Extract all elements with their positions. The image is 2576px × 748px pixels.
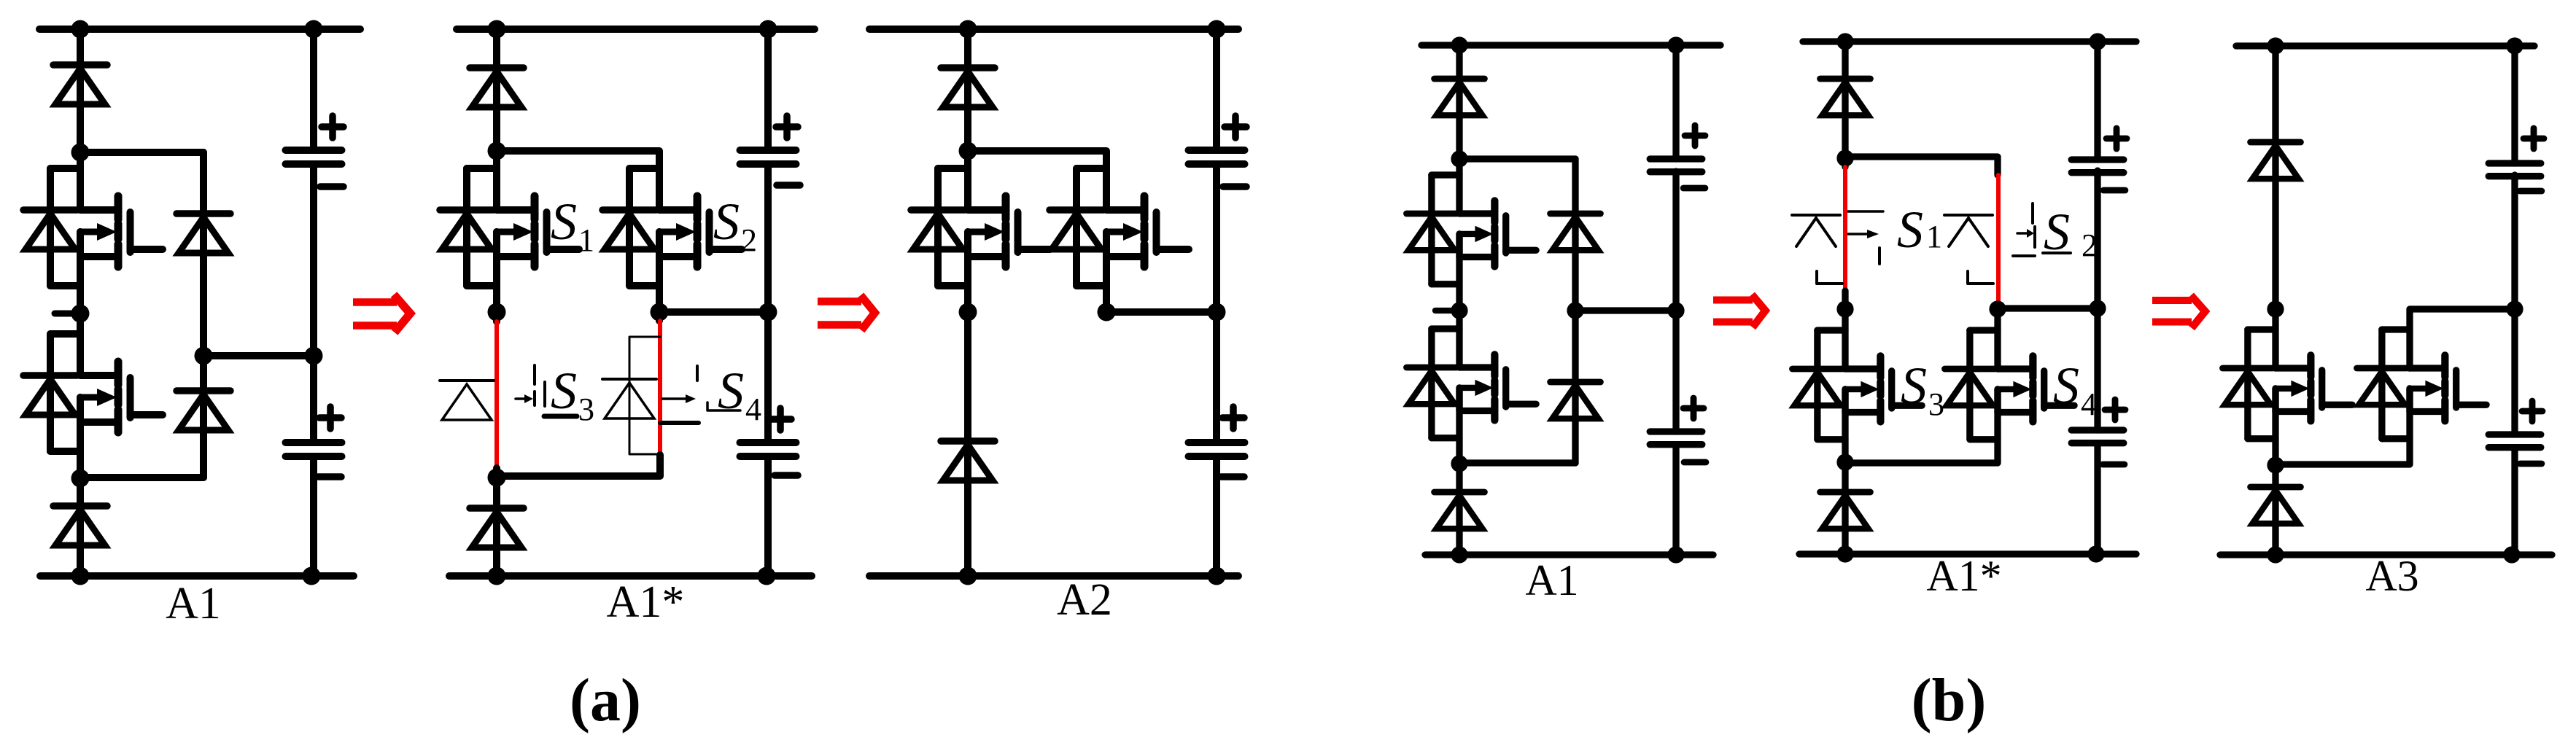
middle branch wire	[1572, 159, 1578, 463]
antiparallel diode of S2	[23, 372, 77, 379]
antiparallel diode of S3	[1793, 366, 1843, 373]
node N-right junction	[758, 567, 776, 585]
switch S2 body-diode loop	[1076, 165, 1106, 172]
diode D5 middle upper	[1551, 211, 1601, 217]
ghost mosfet S4 arrow	[662, 397, 686, 400]
capacitor C2	[740, 439, 796, 446]
capacitor branch lower wire	[1213, 456, 1220, 576]
node M1 below S1	[488, 303, 506, 322]
wire M2 to S4	[1994, 309, 2001, 369]
red replacement wire for S2	[1996, 175, 2001, 300]
wire between capacitors	[1213, 164, 1220, 443]
antiparallel diode of S1	[911, 206, 965, 214]
node P-left junction	[1836, 33, 1853, 50]
ghost mosfet S2 channel mid	[2033, 227, 2036, 247]
wire left branch upper	[1842, 42, 1848, 167]
mosfet S2	[80, 372, 118, 379]
svg-text:S: S	[1901, 357, 1927, 415]
mosfet S2	[1106, 206, 1144, 214]
red replacement wire for S3	[494, 322, 499, 468]
node N-right junction	[303, 567, 321, 585]
ghost mosfet S2 source tick	[2013, 254, 2035, 257]
red replacement wire for S4	[658, 321, 662, 455]
ghost mosfet S3 gate bar	[543, 382, 546, 406]
circuit A1* (b) top rail P	[1803, 38, 2136, 44]
node B (below S3)	[1836, 453, 1853, 470]
node A (below D1)	[1451, 150, 1467, 167]
wire between capacitors	[310, 164, 317, 443]
diode D2 bottom clamp	[1820, 489, 1871, 496]
minus of C2	[2103, 461, 2125, 468]
node P-right junction	[305, 20, 323, 39]
circuit A2 top rail P	[869, 26, 1238, 33]
ghost mosfet S1 gate	[1817, 271, 1842, 284]
mosfet S3	[2276, 365, 2311, 371]
capacitor C1	[1650, 155, 1702, 162]
diode D2 bottom clamp	[470, 504, 524, 512]
node M1 (between switches)	[1451, 302, 1467, 319]
circuit A1* (a) top rail P	[457, 26, 815, 33]
node capacitor midpoint	[1667, 302, 1684, 319]
wire bottom left	[493, 478, 500, 576]
wire below S2	[656, 232, 663, 321]
node M1 (S3 drain)	[2267, 300, 2284, 317]
wire left branch lower	[77, 397, 84, 576]
svg-text:A1: A1	[166, 579, 221, 628]
middle branch wire	[200, 152, 207, 478]
capacitor branch lower wire	[310, 456, 317, 576]
mosfet S4	[2410, 365, 2445, 371]
wire node A to middle branch	[80, 149, 203, 156]
red transformation arrow 3	[1713, 297, 1753, 304]
svg-text:A2: A2	[1057, 575, 1112, 625]
node N-right junction	[2503, 546, 2520, 563]
capacitor branch upper wire	[764, 29, 772, 150]
wire left branch upper	[964, 29, 971, 210]
switch S2 body-diode loop	[50, 330, 80, 338]
minus of C2	[318, 473, 341, 480]
diode D2 bottom clamp	[2251, 484, 2301, 491]
wire S4 to bottom link	[1845, 389, 1998, 463]
antiparallel diode of S1	[1407, 211, 1457, 217]
ghost loop of removed S4	[629, 337, 660, 454]
capacitor C2	[1189, 439, 1245, 446]
switch S2 body-diode loop	[1432, 325, 1459, 332]
ghost diode of removed S1	[1792, 214, 1840, 217]
node P-right junction	[1667, 36, 1684, 53]
diode D2 bottom clamp	[1435, 489, 1485, 496]
minus of C2	[1684, 459, 1706, 466]
ghost mosfet S3 channel top	[533, 365, 536, 384]
wire above node B	[493, 468, 500, 478]
capacitor C1	[2488, 160, 2541, 166]
node capacitor midpoint	[305, 347, 323, 365]
capacitor branch lower wire	[1672, 445, 1679, 555]
mosfet S1	[80, 206, 118, 214]
mosfet S1	[497, 206, 535, 214]
svg-text:A1*: A1*	[607, 577, 685, 627]
circuit A1* (a) bottom rail N	[449, 572, 812, 580]
diode D1 top clamp	[1435, 76, 1485, 82]
diode D6 middle lower	[176, 387, 230, 394]
minus of C1	[1683, 185, 1705, 192]
capacitor C1	[740, 147, 796, 154]
wire node A to middle branch	[1459, 155, 1575, 162]
antiparallel diode of S2	[1050, 206, 1103, 214]
node capacitor midpoint	[1208, 303, 1226, 322]
wire below S3	[1842, 389, 1848, 554]
capacitor branch upper wire	[1672, 45, 1679, 159]
mosfet S4	[1998, 365, 2033, 372]
node P-left junction	[959, 20, 977, 39]
mosfet S2	[659, 206, 697, 214]
svg-text:S: S	[551, 192, 577, 251]
wire left branch upper	[77, 29, 84, 210]
wire node A to S2 branch	[1845, 157, 1998, 175]
capacitor C2	[286, 439, 342, 446]
node P-right junction	[1208, 20, 1226, 39]
mosfet S1	[1459, 210, 1494, 217]
wire mid-branch to capacitor midpoint	[203, 352, 314, 359]
node A (below D1)	[959, 142, 977, 160]
circuit A1* (b) bottom rail N	[1799, 550, 2136, 557]
node P-right junction	[759, 20, 777, 39]
node M2 below S2	[651, 303, 669, 322]
switch S2 body-diode loop	[629, 165, 659, 172]
node mid-branch center	[1567, 302, 1583, 319]
svg-text:A1: A1	[1525, 556, 1578, 604]
ghost mosfet S4 gate	[707, 402, 740, 410]
svg-text:S: S	[713, 192, 740, 251]
capacitor branch upper wire	[2511, 46, 2518, 163]
ghost mosfet S1 arrow	[1848, 233, 1867, 235]
plus of C1	[1685, 133, 1705, 139]
node M2 (S4 drain)	[1989, 300, 2006, 317]
red replacement wire for S1	[1843, 167, 1847, 291]
wire node M2 to capacitor midpoint	[1106, 308, 1217, 316]
switch S1 body-diode loop	[50, 165, 80, 172]
minus of C1	[777, 182, 800, 189]
ghost mosfet S3 arrow	[516, 397, 524, 400]
minus of C1	[1223, 183, 1246, 190]
node N-left junction	[959, 567, 977, 585]
switch S1 body-diode loop	[1432, 171, 1459, 178]
switch S1 body-diode loop	[938, 165, 968, 172]
plus of C2	[2522, 408, 2542, 415]
output stub at node M1	[55, 311, 76, 317]
node capacitor midpoint	[759, 303, 777, 322]
node P-left junction	[71, 20, 90, 39]
svg-text:(a): (a)	[570, 666, 641, 734]
ghost mosfet S4 source lead	[660, 421, 699, 425]
ghost mosfet S2 gate	[1968, 271, 1993, 284]
node A (below D1)	[488, 142, 506, 160]
wire between capacitors	[764, 164, 772, 443]
wire capacitor midpoint to S4 drain	[2410, 309, 2515, 368]
plus of C1	[322, 123, 344, 130]
node N-right junction	[2087, 545, 2104, 562]
node B (below S2)	[71, 470, 90, 488]
capacitor branch lower wire	[764, 456, 772, 576]
capacitor branch lower wire	[2094, 443, 2100, 554]
circuit A1 (b) bottom rail N	[1425, 551, 1713, 558]
diode D2 bottom clamp	[941, 437, 995, 445]
svg-text:S: S	[1897, 200, 1923, 259]
diode D1 top clamp	[1820, 76, 1871, 82]
node N-left junction	[1836, 545, 1853, 562]
node N-left junction	[1451, 546, 1467, 563]
diode D1 top clamp	[941, 64, 995, 71]
diode D2 bottom clamp	[53, 502, 107, 510]
minus of C2	[1221, 473, 1244, 480]
switch S3 body-diode loop	[2248, 326, 2276, 332]
node B (below S3)	[2267, 456, 2284, 473]
wire left branch upper	[2272, 46, 2278, 368]
ghost mosfet S2 channel top	[2031, 203, 2034, 223]
diode D6 middle lower	[1551, 379, 1601, 386]
output stub at node M1	[1435, 308, 1456, 313]
wire above node M1	[1842, 291, 1848, 309]
node P-left junction	[2267, 37, 2284, 54]
svg-text:2: 2	[741, 222, 757, 258]
capacitor C2	[1650, 428, 1702, 435]
wire below S3	[2272, 389, 2278, 555]
wire left branch upper	[1456, 45, 1462, 214]
node P-left junction	[1451, 36, 1467, 53]
svg-text:(b): (b)	[1912, 666, 1987, 734]
plus of C2	[1222, 414, 1244, 421]
capacitor branch upper wire	[310, 29, 317, 150]
capacitor C1	[1189, 147, 1245, 154]
ghost diode of removed S2	[1944, 214, 1993, 217]
plus of C1	[2106, 136, 2127, 142]
node N-right junction	[1208, 567, 1226, 585]
plus of C1	[2523, 136, 2544, 142]
red transformation arrow 2	[818, 297, 861, 305]
ghost mosfet S2 arrow	[2017, 232, 2027, 235]
node N-right junction	[1667, 546, 1684, 563]
wire node A to S2 drain	[497, 151, 659, 210]
node M1 below S1	[959, 303, 977, 322]
antiparallel diode of S3	[2223, 365, 2273, 372]
capacitor branch upper wire	[2094, 42, 2100, 160]
wire between capacitors	[2094, 171, 2100, 430]
ghost mosfet S4 channel top	[696, 366, 699, 381]
antiparallel diode of S1	[23, 206, 77, 214]
ghost diode of removed S4	[602, 378, 656, 381]
ghost mosfet S3 channel mid	[533, 391, 536, 405]
wire left branch mid	[1456, 234, 1462, 367]
svg-text:S: S	[2053, 357, 2079, 415]
svg-text:A3: A3	[2365, 552, 2418, 600]
node capacitor midpoint	[2506, 300, 2523, 317]
node A (below D1)	[1836, 149, 1853, 166]
plus of C1	[1225, 123, 1246, 130]
wire left branch lower	[1456, 388, 1462, 556]
switch S1 body-diode loop	[467, 165, 497, 172]
minus of C1	[320, 183, 344, 190]
minus of C2	[2520, 461, 2542, 467]
node B (bottom junction)	[488, 469, 506, 487]
wire left branch upper	[493, 29, 500, 210]
node N-left junction	[2267, 546, 2284, 563]
capacitor C2	[2071, 426, 2124, 433]
node N-left junction	[488, 567, 506, 585]
node M2 below S2	[1098, 303, 1116, 322]
diode D1 top clamp	[53, 61, 107, 69]
circuit A2 bottom rail N	[869, 572, 1238, 580]
capacitor C1	[286, 147, 342, 154]
mosfet S1	[968, 206, 1006, 214]
mosfet S2	[1459, 364, 1494, 370]
red transformation arrow 4	[2152, 297, 2192, 304]
antiparallel diode of S2	[1407, 365, 1457, 371]
capacitor branch upper wire	[1213, 29, 1220, 150]
wire node M2 to capacitor midpoint	[659, 308, 768, 316]
switch S4 body-diode loop	[1970, 327, 1998, 333]
wire mid-branch to capacitor midpoint	[1575, 307, 1676, 313]
svg-text:A1*: A1*	[1926, 552, 2001, 600]
plus of C2	[2105, 407, 2125, 413]
antiparallel diode of S2	[602, 206, 656, 214]
node P-left junction	[488, 20, 506, 39]
wire M1 to S3	[1842, 309, 1848, 369]
node M1 (S3 drain)	[1836, 300, 1853, 317]
svg-text:3: 3	[1928, 386, 1944, 422]
svg-text:1: 1	[578, 222, 594, 258]
node mid-branch center	[195, 347, 213, 365]
wire left branch mid	[77, 232, 84, 375]
wire node M2 to capacitor midpoint	[1998, 305, 2098, 311]
capacitor branch lower wire	[2511, 448, 2518, 555]
ghost mosfet S1 drain lead	[1848, 210, 1883, 213]
antiparallel diode of S1	[440, 206, 494, 214]
svg-text:S: S	[718, 362, 744, 420]
wire S4 branch to bottom link	[497, 455, 660, 476]
circuit A1 (b) top rail P	[1421, 42, 1720, 48]
plus of C1	[776, 123, 798, 130]
wire middle branch bottom link	[80, 474, 203, 481]
wire below S2	[1103, 232, 1110, 312]
ghost mosfet S1 channel	[1878, 248, 1881, 264]
plus of C2	[1683, 405, 1704, 412]
wire S4 to bottom link	[2276, 389, 2410, 464]
diode D5 middle upper	[176, 210, 230, 217]
wire between capacitors	[1672, 171, 1679, 432]
svg-text:4: 4	[745, 391, 761, 427]
wire node A to S2 drain	[968, 151, 1106, 210]
svg-text:1: 1	[1926, 219, 1942, 254]
ghost mosfet S3 gate lead	[544, 414, 577, 419]
node P-right junction	[2089, 33, 2106, 50]
minus of C1	[2520, 188, 2542, 195]
switch S4 body-diode loop	[2382, 326, 2410, 332]
minus of C1	[2103, 187, 2125, 194]
svg-text:S: S	[551, 362, 577, 420]
node A (below D1)	[71, 144, 90, 162]
node capacitor midpoint	[2089, 300, 2106, 316]
mosfet S3	[1845, 365, 1880, 372]
circuit A1 (a) top rail P	[39, 26, 360, 33]
wire below S1	[493, 232, 500, 322]
circuit A3 bottom rail N	[2220, 551, 2552, 558]
plus of C2	[319, 414, 341, 421]
node B (below S2)	[1451, 455, 1467, 472]
wire below S1	[964, 232, 971, 576]
node N-left junction	[71, 567, 90, 585]
circuit A3 top rail P	[2236, 42, 2534, 49]
diode D1 top clamp	[470, 64, 524, 71]
red transformation arrow 1	[353, 298, 397, 306]
wire middle branch bottom link	[1459, 459, 1575, 466]
antiparallel diode of S4	[2357, 365, 2408, 372]
ghost diode of removed S3	[440, 379, 494, 382]
switch S3 body-diode loop	[1817, 327, 1845, 333]
antiparallel diode of S4	[1945, 366, 1995, 373]
capacitor C2	[2488, 431, 2541, 437]
wire between capacitors	[2511, 175, 2518, 435]
diode D1 top clamp	[2251, 139, 2301, 146]
plus of C2	[769, 416, 791, 423]
minus of C2	[775, 472, 798, 479]
capacitor C1	[2071, 156, 2124, 163]
circuit A1 (a) bottom rail N	[40, 572, 354, 580]
node P-right junction	[2506, 37, 2523, 54]
node M1 (between switches)	[71, 305, 90, 323]
svg-text:3: 3	[578, 391, 594, 427]
